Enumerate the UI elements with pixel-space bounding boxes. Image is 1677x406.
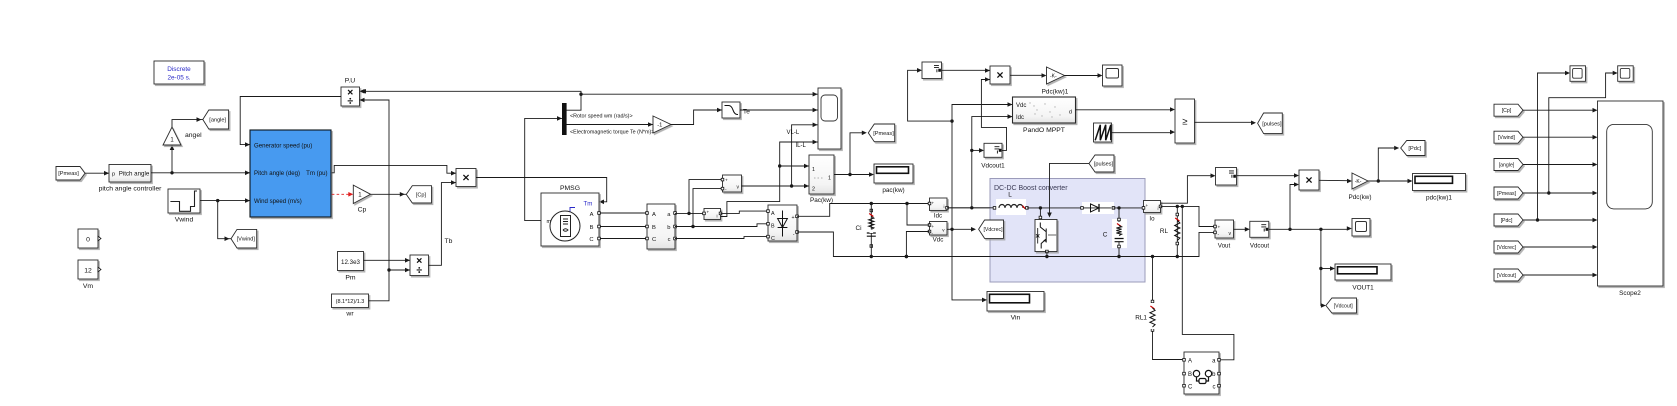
svg-text:P.U: P.U <box>345 78 356 85</box>
svg-text:angel: angel <box>185 132 202 139</box>
svg-text:Ci: Ci <box>855 225 861 232</box>
svg-text:+: + <box>932 201 935 206</box>
svg-text:+: + <box>725 179 728 184</box>
svg-text:i: i <box>1158 206 1159 211</box>
svg-text:PMSG: PMSG <box>560 185 580 192</box>
svg-text:Pdc(kw)1: Pdc(kw)1 <box>1042 89 1069 96</box>
svg-text:12: 12 <box>84 268 92 275</box>
svg-text:Cp: Cp <box>358 207 367 214</box>
svg-text:i: i <box>716 214 717 219</box>
svg-text:p: p <box>112 172 115 178</box>
svg-text:[pulses]: [pulses] <box>1094 162 1114 168</box>
svg-text:B: B <box>771 224 775 230</box>
svg-text:Idc: Idc <box>1016 115 1024 121</box>
svg-text:[Pdc]: [Pdc] <box>1501 218 1513 224</box>
svg-text:b: b <box>667 225 670 231</box>
svg-text:Tm: Tm <box>584 201 593 208</box>
svg-text:1: 1 <box>828 176 831 182</box>
svg-text:RL: RL <box>1160 228 1169 235</box>
svg-text:Vout: Vout <box>1218 243 1231 250</box>
svg-text:Pm: Pm <box>345 275 356 282</box>
svg-text:Pac(kw): Pac(kw) <box>810 197 833 204</box>
svg-text:+: + <box>791 215 794 221</box>
svg-text:Vdcout: Vdcout <box>1250 243 1270 250</box>
svg-text:Io: Io <box>1149 216 1155 223</box>
svg-text:RL1: RL1 <box>1135 315 1147 322</box>
svg-text:Discrete: Discrete <box>167 66 191 73</box>
svg-text:-K-: -K- <box>1050 74 1057 80</box>
svg-text:C: C <box>652 237 656 243</box>
svg-text:[Vdcrec]: [Vdcrec] <box>983 227 1003 233</box>
svg-text:d: d <box>1069 110 1072 116</box>
svg-text:0: 0 <box>86 237 90 244</box>
svg-text:-1: -1 <box>657 123 662 129</box>
svg-text:+: + <box>1146 203 1149 208</box>
svg-text:L: L <box>1008 192 1012 199</box>
svg-text:[Pdc]: [Pdc] <box>1408 146 1421 152</box>
svg-text:Vdcout1: Vdcout1 <box>981 163 1005 170</box>
svg-text:2e-05 s.: 2e-05 s. <box>167 75 190 82</box>
svg-text:[Vdcout]: [Vdcout] <box>1497 273 1517 279</box>
svg-text:+: + <box>1218 226 1221 231</box>
svg-text:wr: wr <box>345 311 354 318</box>
svg-text:C: C <box>1103 232 1108 239</box>
svg-text:C: C <box>771 236 775 242</box>
svg-text:Pitch angle (deg): Pitch angle (deg) <box>254 170 300 177</box>
svg-text:[pulses]: [pulses] <box>1262 121 1282 127</box>
svg-text:[Vdcout]: [Vdcout] <box>1334 304 1354 310</box>
svg-text:1: 1 <box>812 167 815 173</box>
svg-text:Tb: Tb <box>445 238 453 245</box>
svg-text:Pdc(kw): Pdc(kw) <box>1348 194 1371 201</box>
svg-text:Pitch angle: Pitch angle <box>119 171 150 178</box>
svg-text:Vdc: Vdc <box>1016 103 1026 109</box>
svg-text:pitch angle controller: pitch angle controller <box>99 186 162 193</box>
svg-text:DC-DC Boost converter: DC-DC Boost converter <box>994 185 1068 192</box>
svg-text:Generator speed (pu): Generator speed (pu) <box>254 142 312 149</box>
svg-text:+: + <box>707 210 710 215</box>
svg-text:c: c <box>668 237 671 243</box>
svg-text:+: + <box>932 224 935 229</box>
svg-text:B: B <box>1188 372 1192 378</box>
svg-text:B: B <box>652 225 656 231</box>
svg-text:<Electromagnetic torque Te (N*: <Electromagnetic torque Te (N*m)> <box>570 130 654 136</box>
svg-text:12.3e3: 12.3e3 <box>341 259 360 266</box>
svg-text:Tm (pu): Tm (pu) <box>306 170 327 177</box>
svg-text:[Pmeas]: [Pmeas] <box>58 171 79 177</box>
svg-text:-K-: -K- <box>1355 179 1362 185</box>
svg-text:A: A <box>1188 359 1192 365</box>
svg-text:A: A <box>652 212 656 218</box>
svg-text:C: C <box>589 237 593 243</box>
svg-text:[angle]: [angle] <box>1499 163 1515 169</box>
svg-text:A: A <box>771 211 775 217</box>
svg-text:[Cp]: [Cp] <box>1502 108 1512 114</box>
svg-text:pac(kw): pac(kw) <box>882 187 904 194</box>
svg-text:Vm: Vm <box>83 283 94 290</box>
svg-text:c: c <box>1213 385 1216 391</box>
svg-text:[Cp]: [Cp] <box>416 192 427 198</box>
svg-text:<Rotor speed wm (rad/s)>: <Rotor speed wm (rad/s)> <box>570 113 633 119</box>
svg-text:VOUT1: VOUT1 <box>1352 285 1374 292</box>
svg-text:PandO MPPT: PandO MPPT <box>1023 127 1065 134</box>
svg-text:[Vdcrec]: [Vdcrec] <box>1497 245 1517 251</box>
svg-text:[Pmeas]: [Pmeas] <box>1497 191 1517 197</box>
svg-text:Vin: Vin <box>1011 315 1021 322</box>
svg-text:-: - <box>793 232 795 238</box>
svg-text:Wind speed (m/s): Wind speed (m/s) <box>254 198 302 205</box>
svg-text:[Pmeas]: [Pmeas] <box>873 131 894 137</box>
svg-text:Vwind: Vwind <box>175 217 194 224</box>
svg-text:2: 2 <box>812 187 815 193</box>
svg-text:pdc(kw)1: pdc(kw)1 <box>1426 195 1452 202</box>
svg-text:Idc: Idc <box>934 213 942 220</box>
svg-text:B: B <box>590 225 594 231</box>
svg-text:IL-L: IL-L <box>796 143 807 149</box>
svg-text:Vdc: Vdc <box>933 237 944 244</box>
svg-text:Scope2: Scope2 <box>1619 290 1641 297</box>
svg-text:[Vwind]: [Vwind] <box>237 237 256 243</box>
svg-text:(8.1*12)/1.3: (8.1*12)/1.3 <box>336 299 365 305</box>
svg-text:VL-L: VL-L <box>787 130 800 136</box>
svg-text:i: i <box>944 204 945 209</box>
svg-text:C: C <box>1188 385 1193 391</box>
svg-text:[Vwind]: [Vwind] <box>1498 135 1516 141</box>
svg-text:≥: ≥ <box>1182 117 1187 128</box>
svg-text:[angle]: [angle] <box>209 118 226 124</box>
svg-text:A: A <box>590 212 594 218</box>
